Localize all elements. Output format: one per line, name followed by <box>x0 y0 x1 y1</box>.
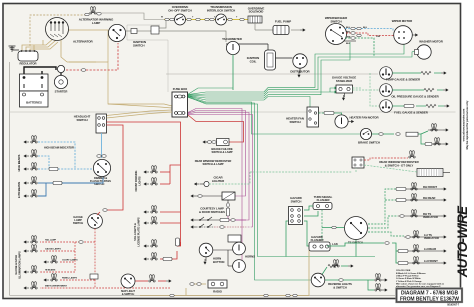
bottom ground bus <box>10 295 395 297</box>
wire green dashed turn signal rows <box>368 189 404 236</box>
wire red fuse accessory feed <box>188 115 244 142</box>
svg-text:FROM BENTLEY E1367W: FROM BENTLEY E1367W <box>400 297 459 303</box>
wire light green gauges <box>353 73 380 106</box>
svg-text:DISTRIBUTOR: DISTRIBUTOR <box>290 70 310 74</box>
stabilizer input arrows <box>334 87 337 93</box>
wire green dashed defroster feed <box>250 165 417 172</box>
wire blue headlight to dimmer <box>101 133 103 158</box>
svg-text:& SWITCH: & SWITCH <box>122 292 135 296</box>
license resistor <box>163 257 172 260</box>
wire red dashed illumination comb <box>40 229 170 289</box>
svg-text:ALTERNATOR: ALTERNATOR <box>73 40 94 44</box>
wire blue dashed high beams <box>38 142 93 169</box>
reverse lamp top <box>328 264 338 267</box>
svg-text:RH FRONT: RH FRONT <box>423 185 437 189</box>
wire green tach drop <box>232 55 234 90</box>
regulator <box>18 50 38 65</box>
svg-text:COURT LAMPS: COURT LAMPS <box>62 259 78 262</box>
LH TS indicator <box>404 236 441 238</box>
svg-text:OIL PRESSURE GAUGE & SENDER: OIL PRESSURE GAUGE & SENDER <box>391 95 439 99</box>
svg-text:FUEL GAUGE & SENDER: FUEL GAUGE & SENDER <box>394 111 429 115</box>
svg-text:SOLENOID: SOLENOID <box>249 10 264 14</box>
svg-text:MAP/COMPARTMENT: MAP/COMPARTMENT <box>45 285 68 288</box>
LH front lamp <box>398 261 408 264</box>
map light switch <box>121 274 135 288</box>
RH rear lamp <box>396 198 406 201</box>
wire tan feed to fusebox <box>69 30 173 116</box>
wire green heater resistor <box>319 113 343 115</box>
wire white warning to overdrive <box>101 13 164 20</box>
svg-text:FRONT PARKING: FRONT PARKING <box>134 171 138 192</box>
svg-text:ILLUMINATION LAMPS: ILLUMINATION LAMPS <box>18 251 22 279</box>
low beam lamps <box>31 176 37 184</box>
washer motor <box>415 40 444 60</box>
svg-text:LH FRONT: LH FRONT <box>424 259 438 263</box>
svg-text:SWITCH: SWITCH <box>289 120 300 124</box>
svg-text:L.GN: L.GN <box>332 243 338 246</box>
rear window defroster switch <box>352 157 364 168</box>
defroster lamp <box>409 150 415 158</box>
svg-text:TS SWITCH: TS SWITCH <box>348 241 363 245</box>
connector block <box>151 26 159 34</box>
svg-text:& SWITCH: & SWITCH <box>333 285 346 289</box>
battery cable black <box>24 67 56 74</box>
left ground bus <box>9 62 11 296</box>
svg-text:SWITCH: SWITCH <box>330 19 341 23</box>
svg-text:ON -OFF SWITCH: ON -OFF SWITCH <box>168 8 191 12</box>
wire blue dashed wiper <box>345 29 393 32</box>
ground regulator <box>9 46 20 51</box>
tiny comb labels <box>45 239 78 288</box>
svg-text:SWITCH: SWITCH <box>133 44 145 48</box>
wire green brake lamp branches <box>372 131 428 144</box>
high beam resistor <box>49 167 58 170</box>
fuse box <box>172 87 188 117</box>
svg-text:SWITCH: SWITCH <box>73 221 83 225</box>
wire green LH rear/front feed <box>327 243 398 263</box>
svg-text:SWITCH & LAMP: SWITCH & LAMP <box>203 162 224 166</box>
alternator <box>46 18 94 44</box>
horns <box>213 242 255 272</box>
svg-text:BRAKE SWITCH: BRAKE SWITCH <box>358 141 380 145</box>
wire tan regulator-alternator bundle <box>22 38 96 62</box>
svg-text:AUTO-WIRE: AUTO-WIRE <box>455 205 470 278</box>
wire light green dashed cigar <box>209 172 250 184</box>
low beam resistor <box>53 181 62 184</box>
svg-text:TEMP GAUGE & SENDER: TEMP GAUGE & SENDER <box>386 78 421 82</box>
horn button <box>199 243 224 264</box>
engine area boundary (gray) <box>127 25 168 92</box>
tachometer <box>222 37 243 55</box>
svg-text:TAIL LAMP: TAIL LAMP <box>45 239 57 242</box>
svg-text:INDICATOR: INDICATOR <box>423 215 438 219</box>
ignition switch <box>108 24 146 47</box>
wiper motor <box>392 19 413 44</box>
hazard switch <box>289 196 303 225</box>
svg-text:FUSE BOX: FUSE BOX <box>173 87 187 91</box>
svg-text:REGULATOR: REGULATOR <box>19 62 36 66</box>
heater fan switch <box>286 107 318 127</box>
oil pressure gauge <box>380 84 393 97</box>
svg-text:BUTTON: BUTTON <box>213 260 224 264</box>
courtesy relay <box>191 192 235 220</box>
RH TS indicator <box>398 215 441 217</box>
batteries <box>20 74 49 107</box>
title block <box>397 289 463 303</box>
svg-text:LH REAR: LH REAR <box>424 247 436 251</box>
wire black wiper <box>344 40 356 42</box>
svg-text:LOW BEAMS: LOW BEAMS <box>17 182 21 199</box>
svg-text:HI BEAMS: HI BEAMS <box>45 269 56 272</box>
wire tan always hot bottom <box>140 250 309 296</box>
stop lamp LH <box>425 142 432 145</box>
svg-text:BLK: BLK <box>346 43 351 45</box>
reverse lamps <box>375 273 381 281</box>
door switch row 2 <box>191 224 246 228</box>
wire white ignition outputs <box>126 18 226 42</box>
svg-text:www.advanceautowire.com: www.advanceautowire.com <box>462 108 466 141</box>
svg-text:SWITCH & LAMP: SWITCH & LAMP <box>212 150 233 154</box>
radio <box>208 280 227 294</box>
svg-text:LIGHTER: LIGHTER <box>212 179 225 183</box>
svg-text:GAUGE & DASH: GAUGE & DASH <box>14 255 18 275</box>
wire purple bundle <box>188 109 253 267</box>
wire red dashed defroster <box>364 158 408 160</box>
svg-text:G Green S Slate: G Green S Slate W White <box>396 277 421 280</box>
svg-text:HIGH BEAM INDICATOR: HIGH BEAM INDICATOR <box>44 146 74 150</box>
svg-text:8/19/2007-7: 8/19/2007-7 <box>447 305 459 307</box>
RH front lamp <box>396 187 406 190</box>
wire color labels overdrive <box>161 17 238 19</box>
starter <box>54 75 67 93</box>
door switch row 1 <box>191 217 246 222</box>
svg-text:STABILIZER: STABILIZER <box>336 79 353 83</box>
svg-text:DIAGRAM 7 - 67/68 MGB: DIAGRAM 7 - 67/68 MGB <box>401 290 458 296</box>
svg-text:WIPER MOTOR: WIPER MOTOR <box>392 19 413 23</box>
svg-text:RADIO: RADIO <box>213 290 223 294</box>
cigar lighter <box>195 176 226 187</box>
wire color labels wiper <box>346 27 381 45</box>
svg-text:GRN: GRN <box>346 36 351 38</box>
headlight switch <box>74 114 107 133</box>
svg-text:HORNS: HORNS <box>245 255 255 259</box>
svg-text:BATTERIES: BATTERIES <box>26 101 42 105</box>
svg-text:Y Yellow K Pink: Y Yellow K Pink O Orange <box>396 281 422 283</box>
dash area boundary line <box>10 111 456 113</box>
wire red main lighting <box>107 122 181 281</box>
color code legend <box>396 270 445 288</box>
svg-text:LAMP: LAMP <box>92 21 100 25</box>
alternator warning lamp <box>79 6 114 25</box>
reverse light switch <box>311 273 352 289</box>
illumination lamps <box>31 235 37 243</box>
svg-text:RH REAR: RH REAR <box>423 196 435 200</box>
wire green hazard connections <box>286 206 356 257</box>
fuel pump <box>273 20 291 35</box>
boot lamp box <box>228 235 241 242</box>
svg-text:SWITCH: SWITCH <box>291 199 302 203</box>
overdrive solenoid <box>248 7 265 24</box>
turn signal flasher <box>313 195 333 210</box>
svg-text:LGN: LGN <box>376 36 381 38</box>
svg-text:FUEL PUMP: FUEL PUMP <box>275 20 291 24</box>
svg-text:STARTER: STARTER <box>55 90 68 94</box>
brake failure switch and lamp <box>203 139 233 155</box>
svg-text:TACHOMETER: TACHOMETER <box>222 37 243 41</box>
high beam indicator <box>31 135 37 143</box>
wire green dashed wiper <box>345 38 374 57</box>
tail lamps <box>151 205 157 213</box>
wire green dashed flasher drop <box>321 210 323 243</box>
hazard flasher <box>309 235 338 251</box>
svg-text:W: W <box>161 17 163 19</box>
wire red dashed wiper <box>346 33 394 36</box>
svg-text:& SWITCH - GT ONLY: & SWITCH - GT ONLY <box>385 164 414 168</box>
svg-text:HEATER FAN MOTOR: HEATER FAN MOTOR <box>350 116 380 120</box>
LH rear lamp <box>398 249 408 252</box>
svg-text:COLOR CODE: COLOR CODE <box>396 270 411 272</box>
wire blue low beams <box>38 178 103 197</box>
dimmer flash-to-pass switch <box>90 159 111 186</box>
heater fan motor <box>335 115 380 128</box>
svg-text:FLASHER: FLASHER <box>317 198 330 202</box>
wire green main bundle <box>188 42 415 280</box>
wire tan headlight feed <box>107 112 173 118</box>
svg-text:PANEL LAMPS: PANEL LAMPS <box>62 277 78 280</box>
starter solenoid <box>60 73 62 77</box>
svg-text:COIL: COIL <box>250 59 257 63</box>
svg-text:& DOOR SWITCHES: & DOOR SWITCHES <box>199 210 225 214</box>
defroster element <box>417 169 450 177</box>
svg-text:SWITCH: SWITCH <box>76 118 87 122</box>
wire brown dashed warning lamp circuit <box>30 15 86 46</box>
svg-text:BLU: BLU <box>346 27 351 29</box>
brake switch <box>358 128 380 144</box>
ignition coil <box>247 50 276 70</box>
wire green fuel sender <box>392 105 444 107</box>
ballast resistor <box>131 29 137 34</box>
svg-text:LICENSE PLATE LAMPS: LICENSE PLATE LAMPS <box>137 217 141 246</box>
wire green reverse lights <box>322 266 374 290</box>
svg-text:RED: RED <box>346 31 351 33</box>
map light lamp <box>149 274 155 282</box>
fuel gauge <box>380 100 393 113</box>
wire red dashed ignition feed <box>66 43 118 70</box>
svg-text:WASHER MOTOR: WASHER MOTOR <box>419 40 444 44</box>
temp gauge <box>380 67 393 80</box>
overdrive on-off switch <box>168 5 191 25</box>
svg-text:FLASHER: FLASHER <box>311 238 324 242</box>
svg-text:LIGHTS: LIGHTS <box>138 176 142 186</box>
svg-text:HIGH BEAMS: HIGH BEAMS <box>17 154 21 171</box>
wire white fuel pump <box>255 23 300 30</box>
svg-text:May be reproduced for personal: May be reproduced for personal use only <box>465 100 469 149</box>
svg-text:GAUGE LAMPS: GAUGE LAMPS <box>45 248 61 251</box>
svg-text:TAIL LIGHTS &: TAIL LIGHTS & <box>133 223 137 241</box>
license connector <box>176 238 180 246</box>
turn signal switch <box>345 217 368 245</box>
svg-text:INTERLOCK SWITCH: INTERLOCK SWITCH <box>207 8 235 12</box>
gauge lamp switch <box>73 209 107 229</box>
wiper washer switch <box>325 16 348 45</box>
high beam lamps <box>31 149 37 157</box>
svg-text:BLU: BLU <box>363 27 368 29</box>
transmission interlock switch <box>207 5 235 25</box>
svg-text:INDICATOR: INDICATOR <box>424 236 439 240</box>
distributor <box>290 54 310 74</box>
front parking lamps <box>151 165 157 173</box>
wire coil-distributor <box>226 44 300 73</box>
svg-text:B Black LG Lt Green: B Black LG Lt Green N Brown <box>396 272 426 275</box>
wire green oil sender <box>392 89 443 91</box>
wire yellow overdrive <box>164 19 248 21</box>
stop lamp RH <box>428 129 443 131</box>
wire green temp sender <box>392 72 441 74</box>
gauge voltage stabilizer <box>332 76 356 98</box>
